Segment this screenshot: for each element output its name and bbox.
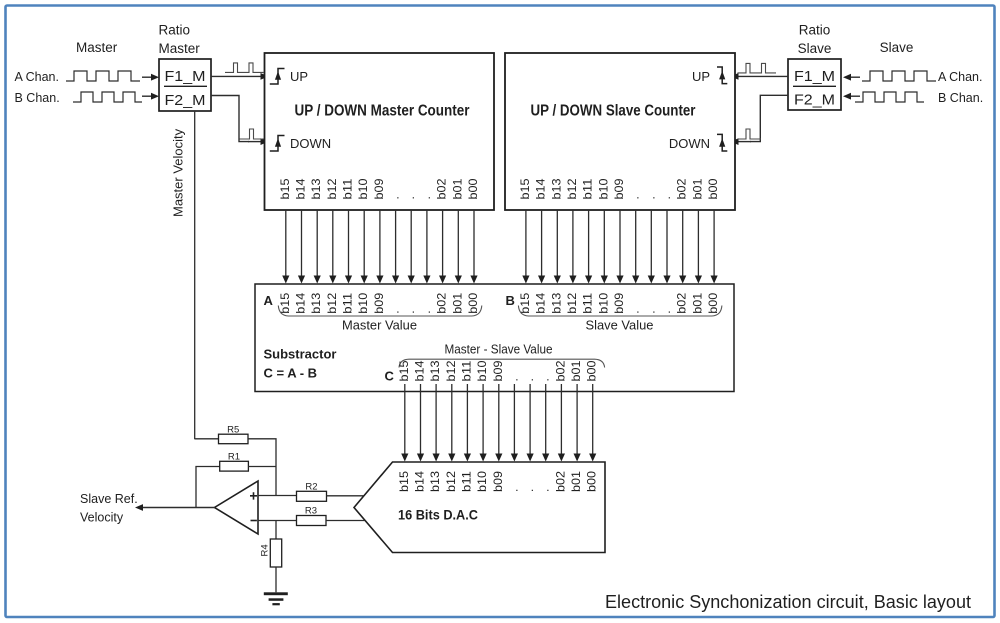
svg-text:DOWN: DOWN [290,136,331,151]
svg-text:b13: b13 [549,292,563,313]
svg-text:Electronic Synchonization circ: Electronic Synchonization circuit, Basic… [605,592,971,612]
svg-text:b13: b13 [428,360,442,381]
pulse waveform on DOWN wire (master) [240,129,265,139]
svg-text:b10: b10 [596,178,610,199]
svg-text:Master: Master [76,40,118,55]
input bit labels B b15..b00 [518,292,720,313]
svg-text:DOWN: DOWN [669,136,710,151]
svg-text:b09: b09 [612,292,626,313]
resistor R2 [297,491,327,501]
svg-text:F2_M: F2_M [794,93,835,109]
wire R3 to DAC output [326,520,365,522]
wire/net Master Velocity (vertical from divider to R5) [194,111,196,439]
svg-text:b10: b10 [596,292,610,313]
svg-text:R3: R3 [305,506,317,517]
svg-text:.: . [522,378,536,381]
svg-text:.: . [388,310,402,313]
clock edge symbol UP input (master counter) [270,69,285,85]
wire R1 to node at x276 [248,466,276,468]
input bit labels DAC b15..b00 [397,471,599,492]
svg-text:b11: b11 [581,178,595,199]
svg-text:b12: b12 [444,471,458,492]
svg-text:b15: b15 [397,471,411,492]
svg-text:Ratio: Ratio [159,23,191,38]
svg-text:.: . [643,310,657,313]
svg-text:.: . [628,310,642,313]
svg-text:A Chan.: A Chan. [938,70,982,84]
svg-text:.: . [643,196,657,199]
input bit labels A b15..b00 [278,292,480,313]
output bit pin labels b15..b00 (slave counter) [518,178,720,199]
svg-text:b13: b13 [309,178,323,199]
svg-text:Master: Master [159,41,201,56]
svg-text:b02: b02 [553,360,567,381]
svg-text:b09: b09 [491,360,505,381]
svg-text:b02: b02 [435,178,449,199]
svg-text:.: . [628,196,642,199]
svg-text:UP / DOWN Slave Counter: UP / DOWN Slave Counter [531,103,696,120]
svg-text:b01: b01 [690,292,704,313]
UP / DOWN Slave Counter block [505,53,735,210]
svg-text:Slave: Slave [798,41,832,56]
svg-text:b10: b10 [356,178,370,199]
clock edge symbol UP input (slave counter) [717,67,727,84]
resistor R1 [220,461,249,471]
svg-text:16 Bits D.A.C: 16 Bits D.A.C [398,508,478,523]
svg-text:.: . [522,489,536,492]
brace under B bits [518,306,722,317]
wire master velocity to R5 [195,438,219,440]
svg-text:b13: b13 [549,178,563,199]
wire R2 to DAC output [327,495,364,497]
wire B chan (slave) to F2_M with arrow [850,95,860,97]
waveform B channel slave [855,92,924,102]
svg-text:b09: b09 [372,292,386,313]
svg-text:B Chan.: B Chan. [15,91,60,105]
svg-text:b14: b14 [294,292,308,313]
svg-text:F2_M: F2_M [165,93,206,109]
svg-text:R4: R4 [260,544,271,556]
brace under A bits [278,306,482,317]
bus wires master counter to substractor A (13 arrows) [282,210,477,284]
svg-text:.: . [403,196,417,199]
wire A chan (slave) to F1_M with arrow [850,76,860,78]
svg-text:Ratio: Ratio [799,23,831,38]
svg-text:.: . [659,310,673,313]
svg-text:b14: b14 [534,178,548,199]
svg-text:b09: b09 [491,471,505,492]
waveform B channel master [73,92,142,102]
svg-text:b01: b01 [450,178,464,199]
svg-text:b00: b00 [585,360,599,381]
svg-text:R1: R1 [228,452,240,463]
svg-text:b01: b01 [450,292,464,313]
svg-text:R2: R2 [305,481,317,492]
svg-text:b12: b12 [325,178,339,199]
svg-text:UP / DOWN Master Counter: UP / DOWN Master Counter [295,103,470,120]
svg-text:b10: b10 [475,360,489,381]
16 bit DAC block (pentagon) [354,462,605,553]
svg-text:.: . [419,310,433,313]
svg-text:b00: b00 [466,178,480,199]
substractor block [255,284,734,392]
svg-text:.: . [388,196,402,199]
svg-text:b02: b02 [675,292,689,313]
svg-text:Master Value: Master Value [342,319,417,333]
UP / DOWN Master Counter block [265,53,495,210]
svg-text:b12: b12 [565,178,579,199]
svg-text:b14: b14 [413,360,427,381]
waveform A channel slave [862,71,936,81]
svg-text:b14: b14 [534,292,548,313]
svg-text:b15: b15 [278,178,292,199]
waveform A channel master [66,71,140,81]
pulse waveform on DOWN wire (slave) [738,129,762,139]
svg-text:B Chan.: B Chan. [938,91,983,105]
svg-text:b14: b14 [294,178,308,199]
svg-text:R5: R5 [227,425,239,436]
svg-text:b14: b14 [413,471,427,492]
wire F1_M output to UP input of master counter [211,75,262,77]
svg-text:F1_M: F1_M [165,69,206,85]
svg-text:.: . [403,310,417,313]
svg-text:UP: UP [290,69,308,84]
resistor R3 [297,516,327,526]
svg-text:B: B [506,293,515,308]
op-amp + input marker [250,492,257,499]
svg-text:b10: b10 [356,292,370,313]
svg-text:b11: b11 [581,292,595,313]
wire R4 to ground [275,567,277,592]
svg-text:b11: b11 [341,178,355,199]
op-amp U1 (difference amplifier) [215,481,259,534]
ratio divider block F1_M/F2_M (master) [159,59,211,111]
bus wires substractor C to DAC (13 arrows) [401,384,596,462]
clock edge symbol DOWN input (slave counter) [717,134,727,151]
svg-text:Substractor: Substractor [264,347,337,362]
svg-text:b12: b12 [444,360,458,381]
svg-text:b12: b12 [565,292,579,313]
wire feedback node to R1 [196,467,220,508]
svg-text:b01: b01 [690,178,704,199]
svg-text:.: . [538,489,552,492]
svg-text:.: . [659,196,673,199]
svg-text:b01: b01 [569,360,583,381]
svg-text:.: . [419,196,433,199]
resistor R4 [270,539,281,567]
clock edge symbol DOWN input (master counter) [270,136,285,152]
svg-text:b02: b02 [553,471,567,492]
resistor R5 [219,434,249,444]
svg-text:b15: b15 [397,360,411,381]
pulse waveform on UP wire (master) [225,63,264,73]
svg-text:b13: b13 [309,292,323,313]
bus wires slave counter to substractor B (13 arrows) [522,210,717,284]
wire - input of op-amp to R3 [258,520,297,522]
svg-text:C = A - B: C = A - B [264,366,318,381]
svg-text:A: A [264,293,274,308]
wire - input node to R4 [275,521,277,540]
output bit pin labels b15..b00 (master counter) [278,178,480,199]
svg-text:b12: b12 [325,292,339,313]
svg-text:Slave Value: Slave Value [586,319,654,333]
wire A chan to F1_M with arrow [142,76,152,78]
svg-text:.: . [506,489,520,492]
svg-text:b00: b00 [706,292,720,313]
wire F2_M output to DOWN input of slave counter [750,95,788,141]
svg-text:Slave Ref.: Slave Ref. [80,492,138,506]
wire F1_M output to UP input of slave counter [738,75,789,77]
svg-text:b15: b15 [518,178,532,199]
svg-text:b00: b00 [466,292,480,313]
svg-text:b00: b00 [706,178,720,199]
svg-text:A Chan.: A Chan. [15,70,59,84]
svg-text:.: . [506,378,520,381]
svg-text:UP: UP [692,69,710,84]
svg-text:b10: b10 [475,471,489,492]
svg-text:b13: b13 [428,471,442,492]
svg-text:b11: b11 [459,471,473,492]
pulse waveform on UP wire (slave) [738,63,777,73]
op-amp - input marker [251,520,257,522]
ratio divider block F1_M/F2_M (slave) [788,59,841,110]
svg-text:b01: b01 [569,471,583,492]
ground symbol [264,592,288,595]
svg-text:b00: b00 [585,471,599,492]
svg-text:b02: b02 [435,292,449,313]
svg-text:F1_M: F1_M [794,69,835,85]
wire R5 to node at x276 [248,439,276,496]
output bit labels C b15..b00 [397,360,599,381]
svg-text:b11: b11 [341,292,355,313]
svg-text:b09: b09 [612,178,626,199]
svg-text:b11: b11 [459,360,473,381]
wire + input of op-amp to R2 [258,495,297,497]
wire op-amp output to Slave Ref. Velocity (arrow) [142,507,215,509]
svg-text:C: C [385,369,395,384]
svg-text:b09: b09 [372,178,386,199]
svg-text:Master - Slave Value: Master - Slave Value [445,343,553,357]
svg-text:.: . [538,378,552,381]
svg-text:Master Velocity: Master Velocity [171,128,186,217]
brace over C bits [399,359,605,367]
wire F2_M output to DOWN input of master counter [211,96,249,142]
wire B chan to F2_M with arrow [142,95,152,97]
svg-text:Velocity: Velocity [80,511,124,525]
svg-text:Slave: Slave [880,40,914,55]
svg-text:b02: b02 [675,178,689,199]
